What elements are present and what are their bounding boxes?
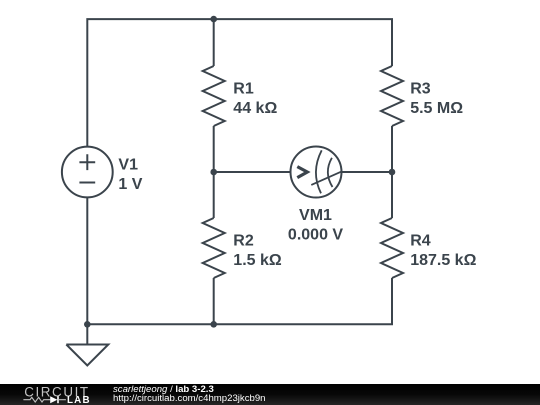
svg-text:1 V: 1 V (118, 176, 142, 193)
svg-text:R3: R3 (410, 81, 431, 98)
svg-text:5.5 MΩ: 5.5 MΩ (410, 100, 463, 117)
svg-text:0.000 V: 0.000 V (288, 227, 343, 244)
V1 plus sign (79, 154, 95, 170)
svg-text:VM1: VM1 (299, 207, 332, 224)
VM1 needle (311, 171, 342, 185)
resistor R2 (203, 218, 225, 278)
svg-text:R4: R4 (410, 233, 431, 250)
VM1 arrow glyph (297, 167, 307, 178)
resistor R1 (203, 66, 225, 126)
voltmeter VM1 (291, 147, 342, 198)
wire R3 bottom lead (391, 126, 393, 172)
svg-text:44 kΩ: 44 kΩ (233, 100, 277, 117)
node junction mid right (389, 169, 396, 176)
VM1 meter arc left (316, 150, 322, 193)
wire top rail right segment (214, 19, 392, 66)
wire R4 top lead (391, 172, 393, 218)
wire R4 bottom lead (391, 278, 393, 324)
wire mid rail left segment (214, 171, 291, 173)
node junction top (210, 16, 217, 23)
wire R2 bottom lead (213, 278, 215, 324)
svg-text:1.5 kΩ: 1.5 kΩ (233, 252, 282, 269)
svg-text:R1: R1 (233, 81, 254, 98)
svg-text:V1: V1 (118, 157, 138, 174)
footer title text (113, 385, 214, 395)
voltage source V1 (62, 147, 113, 198)
CircuitLab logo (0, 384, 110, 405)
node junction mid left (210, 169, 217, 176)
footer url text (113, 394, 266, 404)
wire R2 top lead (213, 172, 215, 218)
V1 minus sign (79, 182, 95, 184)
wire bottom rail (87, 278, 392, 324)
ground (66, 324, 108, 365)
svg-text:187.5 kΩ: 187.5 kΩ (410, 252, 476, 269)
footer bar (0, 384, 540, 405)
wire middle column top lead (213, 19, 215, 66)
node junction bottom left (84, 321, 91, 328)
VM1 meter arc right (328, 158, 333, 187)
wire R1 bottom lead (213, 126, 215, 172)
resistor R3 (381, 66, 403, 126)
wire V1 bottom lead (86, 197, 88, 324)
svg-text:LAB: LAB (67, 395, 91, 405)
resistor R4 (381, 218, 403, 278)
svg-text:R2: R2 (233, 233, 254, 250)
wire top rail left segment (87, 19, 213, 147)
node junction bottom middle (210, 321, 217, 328)
wire mid rail right segment (342, 171, 393, 173)
